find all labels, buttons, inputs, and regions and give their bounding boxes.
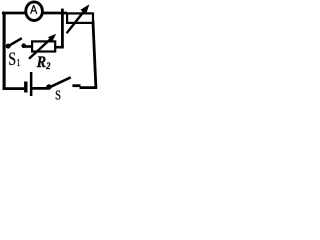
battery cell long plate (30, 72, 33, 96)
svg-text:S: S (55, 88, 61, 100)
switch S blade (50, 77, 71, 87)
svg-text:R: R (36, 52, 46, 71)
wire bottom right (80, 86, 98, 89)
resistor R2 box (32, 41, 55, 51)
svg-text:S: S (8, 49, 16, 70)
switch S1 left contact dot (6, 44, 11, 49)
ammeter letter A (31, 5, 37, 14)
switch S1 right contact dot (21, 43, 26, 48)
wire branch vertical at node (61, 9, 64, 48)
svg-text:2: 2 (45, 61, 50, 72)
ammeter A1 circle (26, 2, 43, 21)
rheostat R1 box (67, 13, 93, 23)
switch S1 blade (9, 38, 22, 46)
switch S right stub (72, 84, 80, 87)
switch S left contact dot (46, 84, 51, 89)
wire R2 left lead (23, 45, 34, 48)
battery cell short plate (24, 82, 27, 93)
wire left vertical (3, 12, 6, 90)
wire bottom mid (battery to switch S) (32, 87, 49, 90)
wire R2 right lead (55, 46, 64, 49)
svg-text:1: 1 (17, 58, 21, 69)
wire top horizontal (2, 12, 67, 15)
wire bottom left (to battery) (3, 87, 25, 90)
resistor R2 arrow (29, 34, 56, 59)
rheostat R1 arrow (67, 4, 90, 33)
wire right vertical (93, 20, 96, 88)
